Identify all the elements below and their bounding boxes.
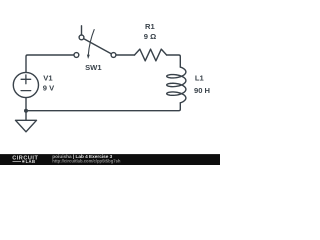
wire V1 top to switch left throw <box>26 55 74 72</box>
svg-text:SW1: SW1 <box>85 63 102 72</box>
wire inductor bottom to node A <box>26 103 180 111</box>
ground <box>16 120 37 132</box>
svg-text:9 V: 9 V <box>43 84 55 93</box>
voltage source V1 body <box>13 72 38 97</box>
svg-text:90 H: 90 H <box>194 86 210 95</box>
svg-text:L1: L1 <box>195 74 205 83</box>
switch SW1 left throw terminal <box>74 53 79 58</box>
wire resistor to inductor top <box>167 55 181 67</box>
svg-text:V1: V1 <box>43 74 53 83</box>
svg-text:R1: R1 <box>145 22 155 31</box>
logo block <box>22 160 24 162</box>
svg-text:9 Ω: 9 Ω <box>144 32 156 41</box>
watermark bar <box>0 154 220 165</box>
switch SW1 blade <box>84 39 112 54</box>
resistor R1 <box>135 49 167 61</box>
switch SW1 common terminal <box>111 53 116 58</box>
wire V1 bottom to ground <box>25 98 27 121</box>
inductor L1 coil <box>167 67 186 103</box>
switch SW1 arrowhead <box>87 55 90 59</box>
junction node A <box>24 109 28 113</box>
svg-text:http://circuitlab.com/c/pp5t5b: http://circuitlab.com/c/pp5t5bg7sh <box>52 159 121 164</box>
wire switch common to resistor <box>116 54 135 56</box>
logo dash <box>13 160 22 163</box>
switch SW1 top throw terminal <box>79 35 84 40</box>
svg-text:LAB: LAB <box>26 159 36 164</box>
switch SW1 top throw stub <box>81 26 83 35</box>
switch SW1 actuation arc <box>88 30 94 55</box>
